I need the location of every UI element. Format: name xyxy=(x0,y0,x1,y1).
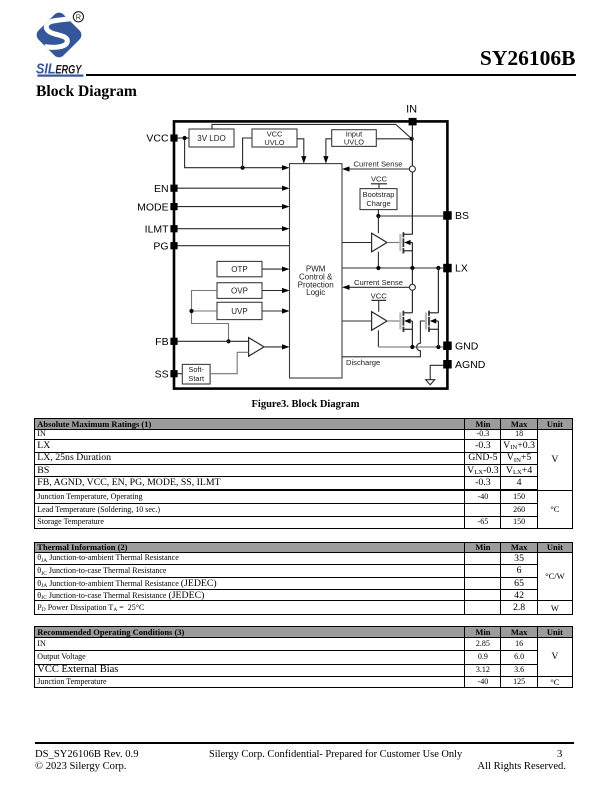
BLOCK DIAGRAM SVG xyxy=(0,95,612,420)
node LX junction Q1 source xyxy=(410,266,414,270)
logo wordmark SILERGY xyxy=(36,62,83,78)
block OTP xyxy=(217,261,262,276)
wire IN node to 3V LDO top xyxy=(212,124,412,138)
svg-text:OTP: OTP xyxy=(231,265,247,274)
wire Q3 source to GND xyxy=(437,321,439,347)
svg-text:UVLO: UVLO xyxy=(344,138,364,147)
pin MODE xyxy=(137,201,177,213)
pin GND xyxy=(443,340,479,352)
block PWM control and protection logic xyxy=(290,164,343,378)
op-amp U4 error amplifier xyxy=(249,338,264,357)
power symbol VCC (bootstrap) xyxy=(371,174,388,188)
pin PG xyxy=(153,240,177,252)
wire ILMT to PWM xyxy=(178,228,283,230)
svg-text:IN: IN xyxy=(406,104,417,116)
wire error amp to PWM xyxy=(264,346,283,348)
node LX junction driver rail xyxy=(376,266,380,270)
svg-text:OVP: OVP xyxy=(231,286,248,295)
svg-text:Bootstrap: Bootstrap xyxy=(363,190,395,199)
pin ILMT xyxy=(145,223,178,235)
wire OVP UVP sense to FB xyxy=(192,291,229,342)
svg-text:R: R xyxy=(76,13,81,22)
svg-text:AGND: AGND xyxy=(455,359,486,371)
wire PWM to driver2 input xyxy=(342,320,372,322)
wire GND line to pin xyxy=(378,346,443,348)
wire PWM to driver1 input xyxy=(342,242,372,244)
label discharge xyxy=(346,358,380,367)
wire driver2 bottom rail to GND xyxy=(377,330,379,347)
transistor Q3 discharge NMOS xyxy=(426,311,438,332)
svg-text:Soft-: Soft- xyxy=(188,365,204,374)
block soft-start xyxy=(182,364,210,384)
label current sense 1 xyxy=(354,160,403,169)
logo underline xyxy=(37,75,83,77)
wire BS line to pin xyxy=(378,215,443,217)
wire Q1 source to LX xyxy=(411,243,413,269)
wire LX to Q2 drain xyxy=(411,268,413,313)
svg-text:LX: LX xyxy=(455,263,468,275)
pin BS xyxy=(443,210,469,222)
block UVP xyxy=(217,302,262,319)
svg-text:MODE: MODE xyxy=(137,201,169,213)
svg-text:VCC: VCC xyxy=(371,174,388,183)
pin VCC xyxy=(146,133,177,145)
wire UVP to PWM xyxy=(262,310,283,312)
wire soft-start to error amp xyxy=(210,352,249,373)
transistor Q1 high-side NMOS xyxy=(400,232,412,253)
diagram outer border xyxy=(174,121,447,388)
figure caption xyxy=(0,399,611,410)
wire Q2 source to GND line xyxy=(411,321,413,347)
pin AGND xyxy=(443,359,486,371)
svg-text:UVP: UVP xyxy=(231,307,247,316)
wire discharge gate net with hop xyxy=(342,321,426,357)
svg-text:VCC: VCC xyxy=(146,133,169,145)
wire LX line to pin xyxy=(342,267,443,269)
svg-text:BS: BS xyxy=(455,210,469,222)
svg-text:GND: GND xyxy=(455,340,479,352)
node VCC junction at pin xyxy=(183,136,187,140)
wire driver1 to Q1 gate xyxy=(387,242,400,244)
pin SS xyxy=(155,368,178,380)
op-amp U3 low-side gate driver xyxy=(372,312,387,331)
power symbol VCC (low-side driver) xyxy=(371,292,388,312)
TABLE 2 : Thermal Information xyxy=(34,542,573,615)
block bootstrap charge xyxy=(360,189,397,210)
node VCC junction mid xyxy=(241,166,245,170)
part number xyxy=(480,46,576,71)
pin IN xyxy=(406,104,417,126)
op-amp U2 high-side gate driver xyxy=(372,233,387,252)
svg-text:Logic: Logic xyxy=(306,288,325,297)
node current sense tap 1 xyxy=(409,166,415,172)
svg-text:3V LDO: 3V LDO xyxy=(197,134,225,143)
wire Q3 drain to LX xyxy=(437,268,439,313)
block 3V LDO xyxy=(189,129,234,147)
wire VCC UVLO to PWM top xyxy=(297,139,304,157)
block input UVLO xyxy=(332,130,377,147)
header rule xyxy=(86,74,576,77)
svg-text:Start: Start xyxy=(188,374,204,383)
block VCC UVLO xyxy=(252,129,297,147)
ground xyxy=(426,380,435,385)
wire VCC net down-right to PWM xyxy=(185,138,283,168)
wire MODE to PWM xyxy=(178,206,283,208)
label current sense 2 xyxy=(354,278,403,287)
pin FB xyxy=(155,336,177,348)
pin EN xyxy=(154,183,178,195)
node current sense tap 2 xyxy=(409,284,415,290)
pin LX xyxy=(443,263,468,275)
wire FB to error amp xyxy=(178,340,249,342)
HEADER xyxy=(0,0,612,112)
node GND junction Q2 source xyxy=(410,345,414,349)
TABLE 3 : Recommended Operating Conditions xyxy=(34,626,573,688)
wire Input UVLO to PWM top xyxy=(326,139,332,157)
wire OTP to PWM xyxy=(262,268,283,270)
wire VCC pin to 3V LDO xyxy=(178,137,189,139)
node BS junction xyxy=(376,214,380,218)
node GND junction Q3 source xyxy=(436,345,440,349)
svg-text:FB: FB xyxy=(155,336,168,348)
wire driver1 top rail xyxy=(377,216,379,233)
logo registered mark xyxy=(73,12,83,22)
svg-text:Current Sense: Current Sense xyxy=(354,160,403,169)
svg-text:EN: EN xyxy=(154,183,169,195)
svg-text:VCC: VCC xyxy=(371,292,388,301)
svg-text:Charge: Charge xyxy=(366,199,390,208)
section heading xyxy=(36,83,137,101)
wire Input UVLO to IN node xyxy=(376,138,411,140)
TABLE 1 : Absolute Maximum Ratings xyxy=(34,418,573,529)
svg-text:PG: PG xyxy=(153,240,168,252)
wire AGND pin to ground xyxy=(430,365,443,379)
wire OVP to PWM xyxy=(262,290,283,292)
wire PG to PWM xyxy=(178,245,290,247)
block OVP xyxy=(217,283,262,299)
wire driver2 to Q2 gate xyxy=(387,320,400,322)
svg-text:ERGY: ERGY xyxy=(55,62,82,76)
FOOTER xyxy=(35,742,574,745)
svg-text:Discharge: Discharge xyxy=(346,358,380,367)
svg-text:Current Sense: Current Sense xyxy=(354,278,403,287)
wire driver1 bottom rail xyxy=(377,252,379,268)
node IN junction xyxy=(410,137,414,141)
svg-text:UVLO: UVLO xyxy=(264,138,284,147)
svg-text:ILMT: ILMT xyxy=(145,223,170,235)
wire VCC branch to VCC UVLO xyxy=(243,138,252,168)
svg-text:SS: SS xyxy=(155,368,169,380)
node FB junction xyxy=(226,339,230,343)
wire bootstrap to BS node xyxy=(377,210,379,216)
node UVP junction xyxy=(189,309,193,313)
wire IN vertical to Q1 drain xyxy=(411,125,413,234)
node LX junction Q3 drain xyxy=(436,266,440,270)
wire current sense 1 to PWM xyxy=(349,168,413,170)
wire current sense 2 to PWM xyxy=(349,286,413,288)
transistor Q2 low-side NMOS xyxy=(400,311,412,332)
wire EN to PWM xyxy=(178,187,283,189)
wire SS to soft-start xyxy=(178,373,183,375)
